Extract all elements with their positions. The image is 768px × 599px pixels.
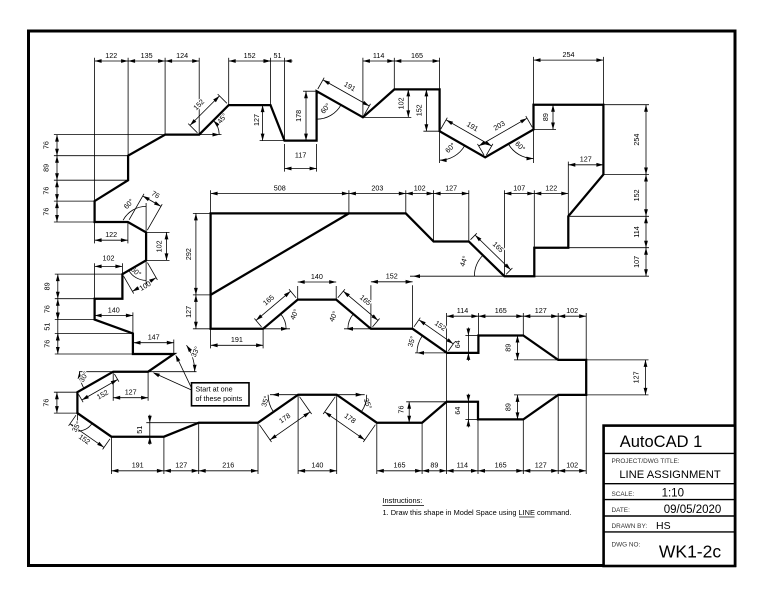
svg-text:127: 127: [445, 183, 457, 192]
svg-text:292: 292: [184, 248, 193, 260]
svg-text:76: 76: [42, 141, 51, 149]
svg-text:122: 122: [105, 51, 117, 60]
svg-text:89: 89: [42, 164, 51, 172]
svg-text:51: 51: [42, 323, 51, 331]
svg-text:147: 147: [148, 333, 160, 342]
svg-text:64: 64: [453, 340, 462, 348]
svg-text:76: 76: [41, 399, 50, 407]
svg-text:127: 127: [175, 461, 187, 470]
svg-text:DRAWN BY:: DRAWN BY:: [612, 523, 648, 530]
svg-text:254: 254: [632, 134, 641, 146]
svg-text:64: 64: [453, 407, 462, 415]
svg-text:89: 89: [503, 344, 512, 352]
svg-text:117: 117: [295, 151, 306, 160]
svg-text:DATE:: DATE:: [612, 507, 631, 514]
svg-text:107: 107: [632, 256, 641, 268]
svg-text:102: 102: [103, 254, 115, 263]
svg-text:122: 122: [105, 230, 117, 239]
svg-text:102: 102: [396, 97, 405, 109]
svg-text:LINE ASSIGNMENT: LINE ASSIGNMENT: [619, 469, 720, 481]
svg-text:of these points: of these points: [196, 394, 243, 403]
svg-text:135: 135: [141, 51, 153, 60]
svg-text:102: 102: [566, 306, 578, 315]
svg-text:89: 89: [430, 461, 438, 470]
svg-text:114: 114: [373, 51, 384, 60]
svg-text:76: 76: [42, 208, 51, 216]
svg-text:191: 191: [132, 461, 144, 470]
svg-text:09/05/2020: 09/05/2020: [664, 504, 722, 516]
svg-text:165: 165: [394, 461, 406, 470]
svg-text:140: 140: [311, 461, 323, 470]
svg-text:51: 51: [135, 426, 144, 434]
svg-text:152: 152: [414, 104, 423, 116]
svg-text:DWG NO:: DWG NO:: [612, 542, 641, 549]
svg-text:127: 127: [184, 306, 193, 318]
svg-text:254: 254: [563, 50, 575, 59]
svg-text:152: 152: [632, 189, 641, 201]
svg-text:1. Draw this shape in Model Sp: 1. Draw this shape in Model Space using …: [383, 508, 572, 517]
svg-text:152: 152: [386, 272, 398, 281]
svg-text:140: 140: [311, 272, 323, 281]
svg-text:122: 122: [545, 183, 557, 192]
svg-text:102: 102: [155, 240, 164, 252]
svg-text:127: 127: [252, 114, 261, 126]
svg-text:Start at one: Start at one: [196, 385, 233, 394]
svg-text:140: 140: [108, 305, 120, 314]
svg-text:152: 152: [244, 51, 256, 60]
svg-text:114: 114: [457, 461, 468, 470]
svg-text:102: 102: [566, 461, 578, 470]
svg-text:178: 178: [294, 110, 303, 122]
svg-text:1:10: 1:10: [662, 488, 684, 500]
svg-text:191: 191: [231, 335, 243, 344]
svg-text:76: 76: [42, 305, 51, 313]
svg-text:127: 127: [580, 155, 592, 164]
svg-text:SCALE:: SCALE:: [612, 491, 635, 498]
svg-text:76: 76: [42, 340, 51, 348]
svg-text:114: 114: [632, 226, 641, 237]
svg-text:76: 76: [42, 187, 51, 195]
svg-text:127: 127: [632, 371, 641, 383]
svg-text:76: 76: [396, 406, 405, 414]
svg-text:89: 89: [541, 113, 550, 121]
svg-text:165: 165: [495, 306, 507, 315]
svg-text:102: 102: [414, 183, 426, 192]
svg-text:127: 127: [535, 461, 547, 470]
svg-text:216: 216: [222, 461, 234, 470]
svg-text:203: 203: [371, 183, 383, 192]
svg-text:51: 51: [274, 51, 282, 60]
svg-text:114: 114: [457, 306, 468, 315]
svg-text:PROJECT/DWG TITLE:: PROJECT/DWG TITLE:: [612, 458, 680, 465]
svg-text:107: 107: [513, 183, 525, 192]
svg-text:HS: HS: [656, 520, 671, 532]
svg-text:127: 127: [125, 388, 137, 397]
svg-text:AutoCAD 1: AutoCAD 1: [620, 433, 703, 451]
svg-text:89: 89: [42, 282, 51, 290]
svg-text:Instructions:: Instructions:: [383, 496, 423, 505]
svg-text:165: 165: [495, 461, 507, 470]
svg-text:165: 165: [411, 51, 423, 60]
svg-text:124: 124: [176, 51, 188, 60]
svg-text:WK1-2c: WK1-2c: [659, 542, 721, 562]
svg-text:89: 89: [503, 403, 512, 411]
svg-text:508: 508: [274, 183, 286, 192]
svg-text:127: 127: [535, 306, 547, 315]
